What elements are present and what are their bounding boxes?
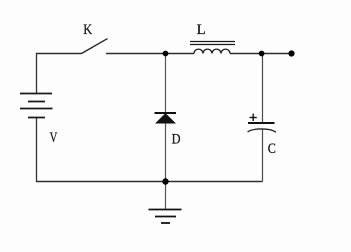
diode D bbox=[155, 113, 177, 123]
svg-text:K: K bbox=[83, 22, 92, 38]
svg-text:C: C bbox=[268, 141, 276, 157]
node right output terminal bbox=[288, 50, 294, 56]
ground bbox=[149, 210, 182, 224]
wire left vertical battery top bbox=[36, 53, 38, 94]
wire ground stub bbox=[165, 182, 167, 210]
battery V bbox=[20, 94, 53, 118]
node diode-top junction bbox=[163, 51, 169, 57]
wire capacitor branch lower bbox=[262, 130, 264, 182]
wire top from inductor to right terminal bbox=[230, 53, 292, 55]
switch K bbox=[82, 39, 108, 54]
svg-text:V: V bbox=[50, 130, 58, 146]
wire bottom rail bbox=[36, 181, 263, 183]
node capacitor-top junction bbox=[259, 51, 265, 57]
svg-text:L: L bbox=[197, 22, 206, 38]
wire diode branch vertical bbox=[165, 54, 167, 182]
capacitor C bbox=[248, 114, 276, 133]
wire capacitor branch upper bbox=[262, 54, 264, 124]
inductor L bbox=[190, 42, 235, 54]
svg-text:D: D bbox=[172, 131, 181, 147]
wire left vertical battery bottom bbox=[36, 118, 38, 182]
wire top from switch to inductor bbox=[106, 53, 194, 55]
wire top from battery to switch bbox=[36, 53, 82, 55]
node bottom junction bbox=[162, 178, 168, 184]
